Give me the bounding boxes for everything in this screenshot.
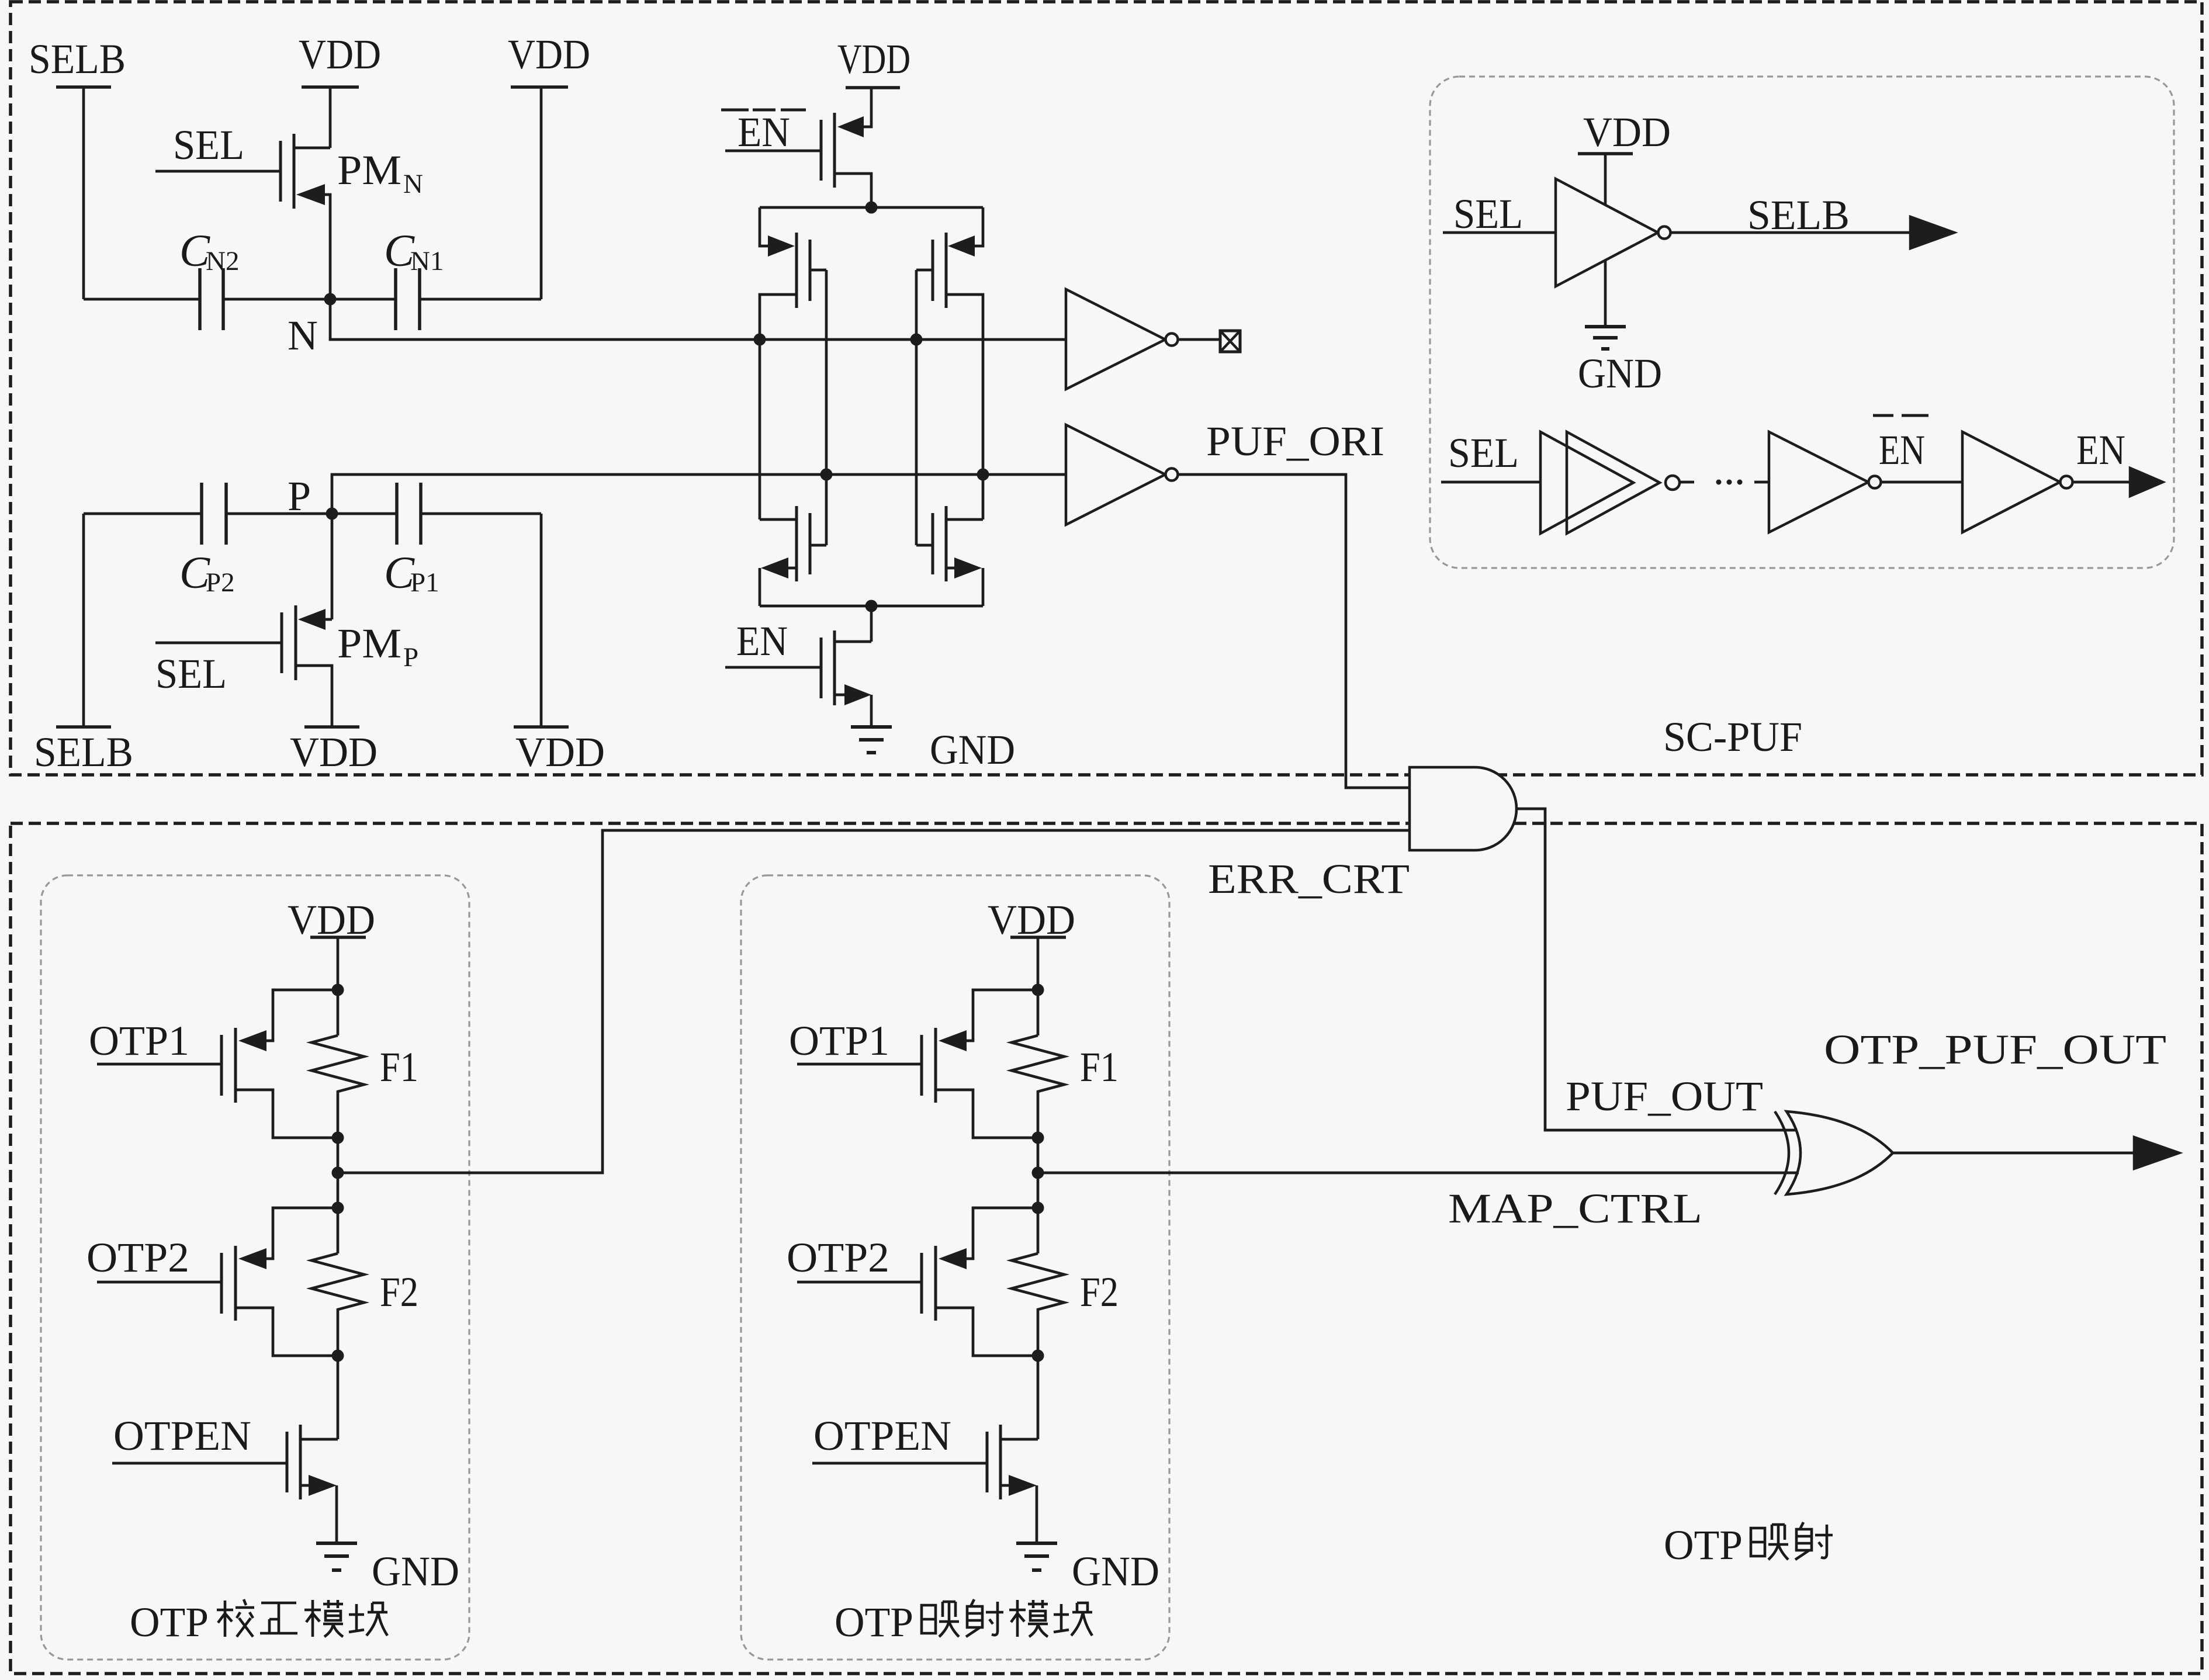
latch PMOS-left gate lead and cross-coupled line to node P [810,270,826,545]
module2 OTP2 PMOS drain jog [936,1308,1038,1356]
module1 OTPEN arrow [309,1475,337,1496]
node N latch dots [754,334,766,346]
module1 OTPEN NMOS gate bar [286,1432,289,1492]
svg-text:VDD: VDD [288,896,375,943]
module1 OTP2 PMOS source jog [266,1208,338,1259]
wire C_P2 to node P [226,512,332,515]
module1 OTP1 PMOS channel bar [234,1028,237,1103]
monitor pad box with X [1220,331,1240,352]
transistor PM_P channel bar [295,605,297,680]
ENbar chain label overbar dashes [1873,414,1928,417]
wire VDD to PM_N source [294,87,330,148]
chain buffer triangle front [1567,432,1660,534]
caption module2: OTP Ying She Mo Kuai [922,1602,959,1637]
resistor F2 module2 [1012,1253,1064,1356]
SELB terminal bottom-left [56,725,111,729]
latch NMOS-left arrow [761,557,788,579]
module2 OTP1 PMOS drain jog [936,1090,1038,1138]
module1 OTP2 PMOS gate lead [97,1281,221,1284]
VDD terminal bottom right [514,725,569,729]
module1 OTP2 PMOS gate bar [220,1253,223,1314]
SC-PUF inverter1 [1556,179,1658,286]
latch NMOS-right drain lead [946,518,983,521]
capacitor C_N1 plates [396,268,420,330]
svg-text:P2: P2 [206,567,235,598]
resistor F2 module1 [311,1253,364,1356]
svg-text:P: P [288,473,311,519]
chain inverter 3 [1769,432,1868,532]
SC-PUF chain input wire SEL [1441,481,1540,484]
capacitor C_P1 plates [397,483,421,545]
VDD terminal latch top [846,86,900,89]
latch bottom rail [760,605,983,608]
svg-text:SEL: SEL [155,650,227,697]
svg-text:OTP1: OTP1 [789,1017,889,1064]
transistor PM_N drain lead to node N [325,195,330,299]
module1 OTP1 PMOS source jog [266,990,338,1041]
wire SELB rail bottom [82,514,85,727]
latch PMOS-left gate bar [809,240,812,301]
transistor EN-NMOS channel bar [833,631,836,705]
transistor PM_N channel bar [293,134,296,209]
svg-text:VDD: VDD [515,729,605,775]
PM_N arrow [296,184,325,205]
svg-text:VDD: VDD [988,896,1075,943]
SC-PUF inv1 VDD terminal [1578,152,1633,155]
latch NMOS-right gate bar [932,513,934,574]
module2 OTP2 arrow [939,1248,967,1269]
node P dot [326,508,338,520]
module1 OTP1 PMOS gate bar [220,1035,223,1096]
svg-text:SELB: SELB [1747,192,1850,238]
transistor PM_P gate bar [281,612,283,673]
svg-text:F2: F2 [380,1269,418,1315]
module1 OTP1 arrow [238,1030,266,1051]
latch PMOS-right channel bar [945,233,948,308]
svg-text:N2: N2 [206,246,239,276]
svg-text:P: P [403,642,418,673]
ground symbol latch [851,725,892,729]
latch NMOS-right channel bar [945,506,948,581]
OTP mapping module dotted rounded box [741,875,1169,1660]
svg-text:SELB: SELB [29,36,126,82]
EN output arrowhead [2130,468,2163,496]
transistor source arrows [238,116,1037,1496]
module2 OTPEN NMOS gate lead [812,1462,987,1465]
latch NMOS-right source lead [946,568,983,606]
caption OTP-mapping: OTP Ying She [1751,1525,1788,1560]
svg-text:EN: EN [2076,427,2125,473]
module2 OTP2 PMOS gate lead [797,1281,922,1284]
XOR output arrowhead [2134,1137,2179,1169]
latch NMOS-left gate lead [810,544,826,547]
VDD terminal top right [511,85,568,89]
svg-text:GND: GND [1578,350,1662,397]
svg-text:GND: GND [930,726,1015,773]
chain buffer triangle back [1540,432,1633,534]
OTP module 1: VDD terminal [310,936,366,939]
PM_P arrow [298,609,326,630]
ground symbol module1 [316,1542,357,1545]
svg-text:OTP2: OTP2 [787,1234,889,1281]
ENbar label overbar dashes [721,109,806,112]
SC-PUF chain wire bubble to dots [1680,481,1694,484]
capacitor C_P2 left wire [84,512,202,515]
latch PMOS-left drain path to node N rail [760,295,797,519]
svg-text:EN: EN [1879,427,1925,473]
latch NMOS-left channel bar [795,506,798,581]
SC-PUF chain wire dots to inv3 [1754,481,1769,484]
transistor ENbar-PMOS gate bar [820,120,823,181]
module2 OTP2 PMOS gate bar [920,1253,923,1314]
module2 OTPEN arrow [1009,1475,1037,1496]
module1 OTP1 PMOS gate lead [97,1063,221,1066]
module2 mid rail with output tap [1037,1138,1040,1208]
svg-text:ERR_CRT: ERR_CRT [1208,855,1410,902]
latch PMOS-right gate bar [932,240,934,301]
SELB terminal top-left [56,85,111,89]
svg-text:VDD: VDD [837,36,910,82]
wire node N jog down to latch row [330,299,1066,340]
module2 OTPEN NMOS source lead to GND [1000,1485,1037,1543]
svg-text:N1: N1 [410,246,444,276]
svg-text:N: N [288,312,318,359]
module2 OTP1 arrow [939,1030,967,1051]
module1 OTPEN NMOS source lead to GND [300,1485,337,1543]
latch PMOS-left channel bar [795,233,798,308]
latch NMOS-right arrow [954,557,982,579]
chain ellipsis dots [1716,480,1722,485]
transistor EN-NMOS gate bar [820,638,823,698]
svg-text:OTPEN: OTPEN [813,1412,951,1459]
module1 OTP2 arrow [238,1248,266,1269]
XOR output wire [1893,1152,2137,1155]
wire VDD right rail to C_N1 [420,87,541,299]
module2 OTP2 PMOS source jog [967,1208,1038,1259]
transistor PM_P source lead to node P [326,514,332,619]
transistor EN-NMOS source lead to GND [835,695,871,727]
latch PMOS-left source path [760,207,768,246]
caption module1: OTP Jiao Zheng Mo Kuai [217,1599,254,1637]
module2 OTPEN NMOS gate bar [986,1432,989,1492]
capacitor C_N2 left wire [84,298,200,301]
latch PMOS-right source path [975,207,983,246]
inverter upper (node N buffer) [1066,289,1165,389]
svg-text:P1: P1 [410,567,439,598]
svg-text:PM: PM [337,147,401,193]
svg-text:MAP_CTRL: MAP_CTRL [1448,1185,1702,1232]
latch PMOS-right arrow [948,235,975,257]
SC-PUF inv1 GND wire [1604,260,1607,327]
node N dot [324,293,337,306]
inverter lower (PUF_ORI) [1066,425,1165,525]
svg-text:SEL: SEL [173,122,244,168]
EN-NMOS arrow [844,684,871,705]
svg-text:EN: EN [736,618,788,664]
transistor ENbar-PMOS gate lead [725,150,821,153]
AND gate ERR_CRT [1410,767,1516,850]
SC-PUF chain wire inv4 to EN arrow [2073,481,2130,484]
svg-text:F1: F1 [1080,1044,1119,1090]
module2 OTP2 PMOS channel bar [934,1246,937,1321]
module1 rail between F2 and OTPEN [300,1208,338,1439]
svg-text:OTP: OTP [130,1599,209,1646]
transistor PM_P gate lead [155,642,282,645]
transistor PM_N gate bar [279,141,282,202]
gates and filled symbols [1066,179,2179,1194]
wire C_N2 to node N [223,298,330,301]
wire node N to C_N1 [330,298,396,301]
module2 OTP1 PMOS channel bar [934,1028,937,1103]
OTP correction module dotted rounded box [41,875,469,1660]
ground symbol SC-PUF inv1 [1585,325,1626,328]
SC-PUF inv1 output wire SELB [1670,231,1910,234]
wire node P to C_P1 [332,512,397,515]
latch bottom rail dot [865,600,878,612]
SC-PUF inner dotted rounded box [1430,77,2174,568]
resistor F1 module2 [1012,1035,1064,1138]
node P latch dots [820,469,833,481]
capacitor C_P2 plates [202,483,226,545]
module2 OTP1 PMOS gate bar [920,1035,923,1096]
transistor EN-NMOS gate lead [725,666,821,669]
module1 rail dots [332,984,344,996]
svg-text:F2: F2 [1080,1269,1119,1315]
ground symbol module2 [1016,1542,1057,1545]
svg-text:F1: F1 [380,1044,418,1090]
svg-text:OTP: OTP [1664,1522,1743,1568]
module1 mid rail with output tap [337,1138,340,1208]
AND output wire down to XOR input [1516,809,1796,1130]
transistor ENbar-PMOS channel bar [833,113,836,188]
svg-text:OTP1: OTP1 [89,1017,189,1064]
MAP_CTRL wire from OTP map module to XOR input [1038,1172,1799,1175]
svg-text:OTP: OTP [835,1599,913,1646]
SC-PUF inv1 input wire SEL [1443,231,1556,234]
resistor F1 module1 [311,1035,364,1138]
chain inverter 4 [1962,432,2060,532]
svg-text:PUF_ORI: PUF_ORI [1206,418,1384,465]
inverter lower output wire PUF_ORI routing to AND gate [1178,474,1410,788]
latch PMOS-left arrow [768,235,795,257]
svg-text:PM: PM [337,620,401,667]
inverter upper output wire to monitor pad [1178,338,1220,341]
module2 rail dots [1032,984,1044,996]
ENbar-PMOS arrow [837,116,864,137]
XOR gate body [1786,1111,1893,1194]
junction dots [324,202,1044,1362]
latch PMOS-right gate lead and cross-coupled line to node N [916,270,933,545]
module2 OTP1 PMOS gate lead [797,1063,922,1066]
module2 VDD rail [1037,937,1040,1035]
latch top rail dot [865,202,878,214]
module1 OTP2 PMOS channel bar [234,1246,237,1321]
OTP mapping outer dashed box [11,823,2202,1674]
transistor ENbar-PMOS source lead [864,88,871,127]
module1 VDD rail [337,937,340,1035]
OTP module 2: VDD terminal [1010,936,1066,939]
VDD terminal bottom (PM_P) [304,725,359,729]
svg-text:SC-PUF: SC-PUF [1663,713,1802,760]
svg-text:EN: EN [738,109,790,155]
ERR_CRT wire from OTP correction module to AND gate [338,830,1410,1173]
SELB arrowhead [1910,217,1954,248]
XOR gate input arc [1775,1111,1789,1194]
latch NMOS-left gate bar [809,513,812,574]
svg-text:SEL: SEL [1448,429,1519,476]
svg-text:GND: GND [372,1548,459,1595]
svg-text:N: N [403,169,423,199]
wire C_P1 to VDD rail bottom right [421,514,541,727]
module1 OTP2 PMOS drain jog [236,1308,338,1356]
transistor PM_N gate lead [155,170,281,173]
module1 OTP1 PMOS drain jog [236,1090,338,1138]
module2 OTPEN NMOS channel bar [999,1425,1002,1499]
latch PMOS-right drain path to node P rail [946,295,983,519]
svg-text:PUF_OUT: PUF_OUT [1566,1073,1763,1120]
svg-text:OTP_PUF_OUT: OTP_PUF_OUT [1824,1026,2166,1073]
module2 OTP1 PMOS source jog [967,990,1038,1041]
svg-text:GND: GND [1072,1548,1159,1595]
transistor EN-NMOS drain lead [835,606,871,642]
svg-text:VDD: VDD [1583,109,1671,155]
VDD terminal top (PM_N) [302,85,359,89]
capacitor C_N2 plates [200,268,223,330]
wire node P jog up to latch row [332,474,1066,514]
svg-text:OTPEN: OTPEN [113,1412,251,1459]
latch NMOS-left source lead [760,568,797,606]
svg-text:OTP2: OTP2 [86,1234,189,1281]
transistor ENbar-PMOS drain lead [836,174,871,207]
module1 OTPEN NMOS channel bar [299,1425,302,1499]
module2 rail between F2 and OTPEN [1000,1208,1038,1439]
SC-PUF outer dashed box [11,2,2202,775]
svg-text:VDD: VDD [299,31,381,78]
latch NMOS-right gate lead [916,544,933,547]
wire SELB rail left [82,87,85,299]
svg-text:SELB: SELB [34,729,133,775]
svg-text:SEL: SEL [1453,190,1523,237]
SC-PUF chain wire inv3 to inv4 [1881,481,1962,484]
svg-text:VDD: VDD [508,31,590,78]
latch top rail [760,206,983,209]
transistor PM_P drain lead to VDD [296,666,332,727]
module1 OTPEN NMOS gate lead [112,1462,287,1465]
svg-text:VDD: VDD [290,729,378,775]
latch NMOS-left drain lead [760,518,797,521]
SC-PUF inv1 VDD wire [1604,154,1607,205]
